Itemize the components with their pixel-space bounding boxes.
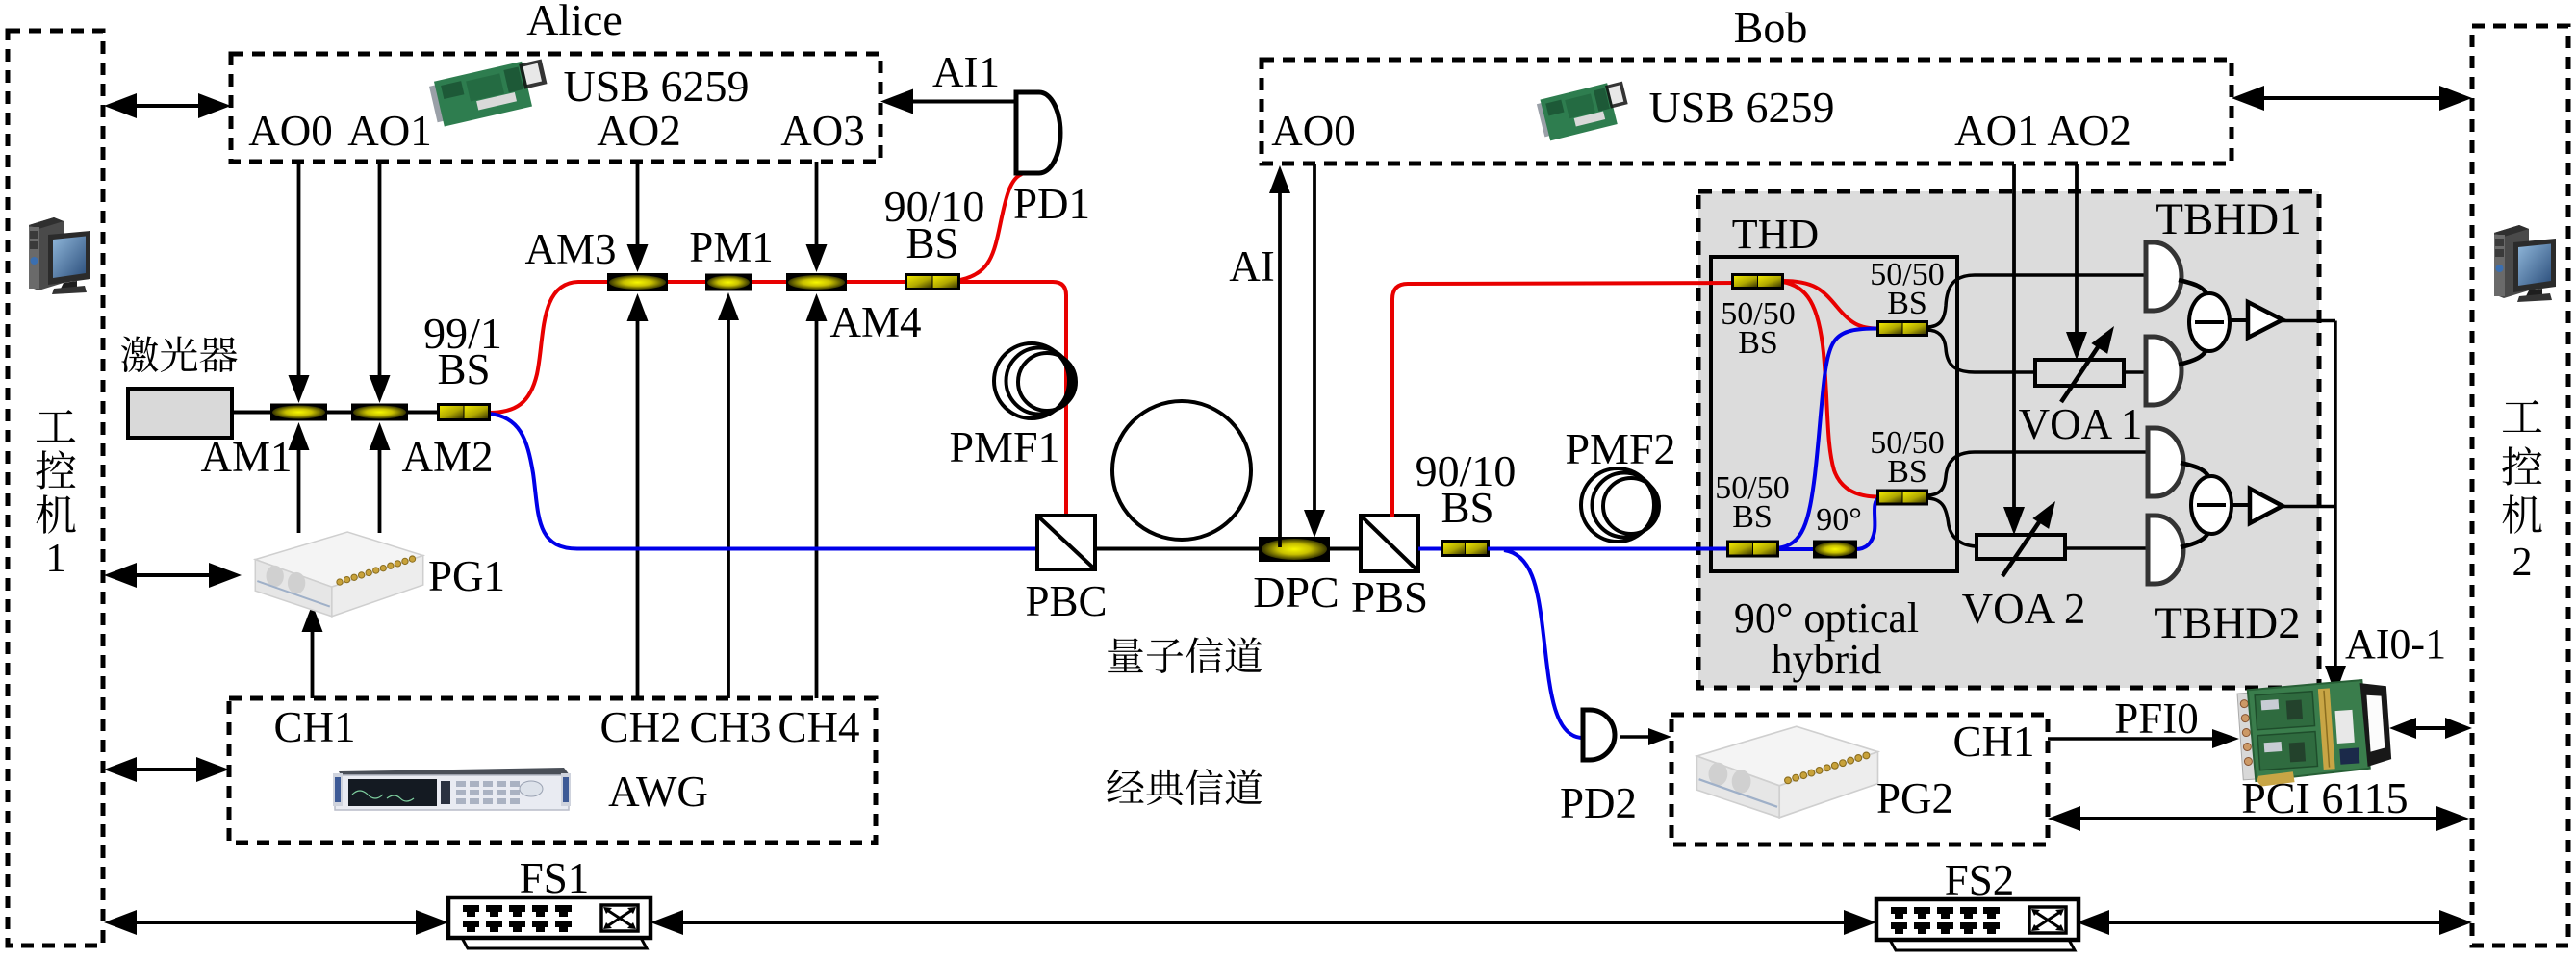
svg-text:BS: BS — [905, 219, 958, 267]
svg-text:DPC: DPC — [1253, 568, 1339, 617]
dynamic polarization controller DPC — [1259, 537, 1330, 562]
svg-text:PD2: PD2 — [1560, 779, 1637, 827]
svg-text:VOA 1: VOA 1 — [2019, 400, 2143, 448]
PG2 dashed box — [1671, 715, 2048, 845]
fiber 50/50 bottom-right BS to detector3 — [1926, 452, 2148, 495]
fiber blue THD bottom-left BS to 50/50 BS top-right — [1777, 329, 1878, 549]
wire AWG CH4 to AM4 — [815, 317, 819, 698]
wire AWG CH2 to AM3 — [636, 317, 640, 698]
wire AO1 to VOA2 — [2012, 164, 2016, 511]
USB 6259 card image (Bob) — [1536, 80, 1632, 142]
fiber blue to PD2 — [1504, 550, 1581, 738]
svg-text:1: 1 — [46, 537, 66, 581]
subtractor circle TBHD1 — [2189, 293, 2230, 351]
svg-text:AO3: AO3 — [780, 107, 865, 155]
link detector1 to subtractor1 — [2179, 280, 2207, 295]
svg-text:AM2: AM2 — [401, 433, 493, 481]
fiber red 99/1BS to AM3 — [489, 282, 616, 413]
subtractor circle TBHD2 — [2191, 476, 2232, 534]
svg-text:BS: BS — [1738, 325, 1778, 361]
svg-text:PD1: PD1 — [1013, 180, 1090, 228]
fiber switch FS2 — [1876, 899, 2079, 950]
fiber red AM4-90/10BS — [843, 280, 908, 284]
beamsplitter 90/10 BS (Bob) — [1441, 540, 1490, 557]
wire PFI0 PG2 to PCI — [2048, 737, 2218, 741]
svg-text:TBHD2: TBHD2 — [2155, 598, 2300, 648]
wire DPC to PBS — [1330, 547, 1361, 551]
fiber blue 90/10BS to THD — [1488, 547, 1732, 551]
svg-text:USB 6259: USB 6259 — [564, 62, 750, 111]
wire AO2 to VOA1 — [2075, 164, 2079, 336]
svg-text:TBHD1: TBHD1 — [2155, 194, 2301, 244]
computer icon PC2 — [2494, 225, 2556, 302]
svg-text:AWG: AWG — [608, 768, 708, 816]
link detector3 to subtractor2 — [2181, 463, 2209, 478]
wire AO3 arrow to AM4 — [815, 162, 819, 248]
svg-text:CH2: CH2 — [599, 703, 681, 751]
PCI 6115 card image — [2237, 678, 2393, 788]
attenuator VOA2 — [1977, 496, 2065, 576]
beamsplitter 50/50 BS bottom-right — [1876, 490, 1928, 506]
polarization beam splitter PBS — [1361, 516, 1418, 571]
svg-text:AO0: AO0 — [1271, 107, 1356, 155]
wire TBHD2 output — [2282, 505, 2335, 509]
svg-text:USB 6259: USB 6259 — [1649, 83, 1835, 132]
bottom bus FS2-PC2 — [2105, 921, 2443, 924]
link Bob-PC2 — [2260, 96, 2443, 100]
fiber red PM1-AM4 — [749, 280, 791, 284]
fiber spool (quantum channel) — [1112, 401, 1251, 540]
wire VOA1 to detector2 — [2122, 370, 2146, 374]
detector D4 — [2148, 516, 2183, 584]
THD gray dashed box — [1698, 191, 2319, 688]
svg-text:AM3: AM3 — [524, 225, 616, 273]
fiber red 90/10BS to PBC — [958, 282, 1066, 517]
link PC1-PG1 — [133, 573, 213, 577]
svg-text:AO0: AO0 — [248, 107, 333, 155]
wire VOA2 to detector4 — [2063, 546, 2148, 550]
USB 6259 card image (Alice) — [428, 57, 551, 128]
wire AO1 arrow to AM2 — [378, 162, 382, 379]
beamsplitter 90/10 BS (Alice) — [905, 273, 960, 290]
svg-text:CH3: CH3 — [689, 703, 771, 751]
svg-text:BS: BS — [1441, 484, 1493, 532]
svg-text:BS: BS — [437, 345, 490, 393]
svg-text:PFI0: PFI0 — [2114, 694, 2199, 743]
modulator PM1 — [705, 274, 752, 291]
fiber blue THD bottom-left BS to 90deg — [1777, 547, 1815, 551]
svg-text:PMF2: PMF2 — [1565, 424, 1675, 473]
svg-text:FS1: FS1 — [520, 854, 590, 902]
svg-text:AO1 AO2: AO1 AO2 — [1954, 107, 2131, 155]
label 量子信道 — [1108, 638, 1143, 672]
beamsplitter 50/50 BS THD bottom-left — [1726, 541, 1779, 558]
wire AI1 PD1 to Alice box — [911, 100, 1016, 104]
fiber red PBS to THD — [1392, 283, 1737, 517]
photodiode PD2 — [1583, 710, 1615, 760]
svg-text:THD: THD — [1732, 211, 1819, 258]
photodiode PD1 — [1016, 92, 1060, 173]
svg-text:PG2: PG2 — [1876, 774, 1953, 822]
laser box 激光器 — [128, 389, 232, 438]
svg-text:AI1: AI1 — [932, 48, 1000, 96]
svg-text:AM4: AM4 — [829, 298, 921, 346]
svg-text:2: 2 — [2512, 541, 2533, 585]
wire PG1 to AM1 — [297, 446, 301, 533]
svg-text:90°: 90° — [1816, 502, 1862, 538]
detector D3 — [2148, 428, 2183, 496]
wire AI DPC to Bob box — [1278, 189, 1282, 547]
fiber 50/50 top-right BS to VOA1 — [1926, 330, 2038, 372]
svg-text:FS2: FS2 — [1945, 856, 2015, 904]
link PC1-Alice box — [133, 104, 202, 108]
svg-text:PM1: PM1 — [689, 223, 774, 271]
wire laser to AMs — [232, 411, 443, 415]
wire AWG CH1 to PG1 — [311, 628, 315, 698]
svg-text:AI0-1: AI0-1 — [2345, 620, 2446, 668]
svg-text:BS: BS — [1732, 499, 1773, 535]
svg-text:AI: AI — [1229, 242, 1274, 290]
link PG2-PC2 bus PCI 6115 — [2077, 817, 2440, 820]
wire AI0-1 to PCI6115 — [2334, 321, 2337, 669]
label industrial-PC-1 (vertical 工控机1) — [37, 410, 75, 442]
fiber coil PMF2 — [1581, 468, 1659, 542]
bottom bus FS1-FS2 — [679, 921, 1848, 924]
beamsplitter 50/50 BS THD input — [1731, 273, 1784, 290]
svg-text:AO1: AO1 — [347, 107, 432, 155]
fiber switch FS1 — [448, 897, 650, 948]
modulator AM3 — [607, 273, 668, 291]
wire PD2 to PG2 — [1620, 735, 1650, 739]
svg-text:VOA 2: VOA 2 — [1962, 585, 2086, 633]
Bob dashed box — [1262, 60, 2232, 164]
detector D1 — [2146, 242, 2181, 311]
AWG dashed box — [229, 698, 876, 843]
wire PG1 to AM2 — [378, 446, 382, 533]
beamsplitter 99/1 BS — [437, 403, 491, 421]
wire AO2 arrow to AM3 — [636, 162, 640, 248]
svg-text:AO2: AO2 — [597, 107, 681, 155]
computer icon PC1 — [29, 217, 90, 294]
attenuator VOA1 — [2035, 321, 2124, 402]
fiber coil PMF1 — [994, 343, 1076, 418]
fiber 50/50 bottom-right BS to VOA2 — [1926, 498, 1978, 546]
industrial PC 2 dashed box — [2472, 26, 2568, 946]
detector D2 — [2146, 337, 2181, 405]
Alice dashed box — [231, 54, 880, 162]
wire PBC to DPC quantum fiber — [1095, 547, 1262, 551]
beamsplitter 50/50 BS top-right — [1876, 320, 1928, 337]
fiber blue 90deg to 50/50 BS bottom-right — [1855, 497, 1880, 549]
polarization beam combiner PBC — [1037, 516, 1095, 569]
fiber red AM3-PM1 — [664, 280, 709, 284]
svg-text:Alice: Alice — [526, 0, 623, 44]
label 经典信道 — [1107, 770, 1143, 803]
amplifier triangle TBHD1 — [2230, 318, 2248, 322]
phase shifter 90deg — [1813, 541, 1857, 559]
label industrial-PC-2 (vertical 工控机2) — [2503, 400, 2541, 432]
bottom bus PC1-FS1 — [133, 921, 420, 924]
link detector4 to subtractor2 — [2181, 531, 2209, 547]
svg-text:CH1: CH1 — [273, 703, 355, 751]
modulator AM2 — [351, 404, 408, 421]
link detector2 to subtractor1 — [2179, 348, 2207, 365]
fiber blue 99/1BS to PBC — [489, 414, 1039, 549]
svg-text:PMF1: PMF1 — [949, 422, 1059, 471]
svg-text:PG1: PG1 — [428, 552, 505, 600]
AWG instrument image — [333, 768, 571, 810]
svg-text:CH1: CH1 — [1952, 718, 2034, 766]
svg-text:90° optical: 90° optical — [1734, 594, 1919, 642]
fiber red THD input BS to 50/50 BS bottom-right — [1782, 282, 1878, 497]
svg-text:CH4: CH4 — [778, 703, 859, 751]
fiber red THD input BS to 50/50 BS top-right — [1782, 281, 1878, 329]
link PCI6115-PC2 — [2412, 726, 2449, 730]
wire AWG CH3 to PM1 — [727, 316, 730, 698]
fiber blue PBS to 90/10 BS — [1418, 547, 1443, 551]
svg-text:hybrid: hybrid — [1772, 636, 1882, 683]
svg-text:PCI 6115: PCI 6115 — [2241, 773, 2408, 822]
label 激光器 — [121, 337, 159, 373]
svg-text:Bob: Bob — [1734, 3, 1808, 52]
PG2 pulse generator image — [1696, 726, 1877, 818]
industrial PC 1 dashed box — [8, 31, 103, 946]
wire TBHD1 output — [2282, 319, 2335, 323]
svg-text:AM1: AM1 — [200, 433, 292, 481]
wire AO0 Bob to DPC — [1313, 164, 1316, 514]
amplifier triangle TBHD2 — [2232, 503, 2251, 507]
fiber red 90/10BS to PD1 — [960, 174, 1022, 280]
modulator AM1 — [270, 404, 327, 421]
modulator AM4 — [786, 273, 847, 291]
svg-text:BS: BS — [1887, 454, 1927, 490]
svg-text:BS: BS — [1887, 286, 1927, 321]
svg-text:PBS: PBS — [1351, 573, 1428, 621]
PG1 pulse generator image — [255, 532, 422, 617]
fiber 50/50 top-right BS to detector1 — [1926, 275, 2146, 327]
wire AO0 arrow to AM1 — [297, 162, 301, 379]
THD inner box — [1711, 257, 1957, 571]
svg-text:PBC: PBC — [1025, 577, 1107, 625]
link PC1-AWG — [133, 768, 200, 771]
